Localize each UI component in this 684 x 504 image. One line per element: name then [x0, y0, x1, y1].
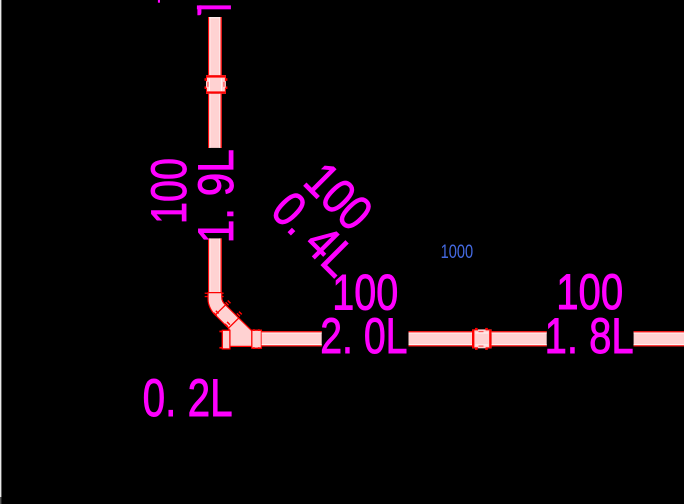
svg-text:2. 0L: 2. 0L: [320, 308, 407, 364]
cut glyph: bottom of rotated '1' of off-screen label (top edge): [197, 5, 231, 15]
wire: vertical pipe segment V3 (below text mask, to elbow): [208, 238, 222, 292]
wire: horizontal pipe segment H2 (text to coupling): [409, 331, 473, 346]
wire: horizontal pipe segment H3 (coupling to 1.8L text): [492, 331, 547, 346]
svg-text:1. 9L: 1. 9L: [188, 149, 244, 243]
wire: vertical pipe segment V1 (top, above coupling): [208, 17, 222, 75]
cap / plug P1 at left end (0.2L stub end): [219, 330, 230, 349]
svg-text:0. 2L: 0. 2L: [143, 369, 233, 428]
socket joint J1 ticks (elbow to diagonal): [214, 301, 231, 316]
coupling C1 on vertical pipe: [205, 75, 228, 94]
wye fitting W1 body: [229, 318, 253, 346]
elbow E1 45deg at bottom of riser: [205, 293, 226, 315]
coupling C2 on horizontal pipe: [472, 328, 492, 350]
cut glyph: tip of rotated '1' of off-screen 100 label (top edge): [158, 0, 160, 3]
svg-text:1000: 1000: [441, 241, 474, 263]
window left edge line: [0, 0, 1, 497]
wye right hub socket: [252, 329, 262, 349]
wire: vertical pipe segment V2 (between coupling and text mask): [208, 94, 222, 148]
wire: diagonal pipe segment D1: [215, 305, 239, 328]
socket joint J2 ticks (diagonal to wye branch): [225, 312, 242, 327]
wire: horizontal pipe segment H4 (1.8L text to right edge): [634, 331, 684, 346]
wire: horizontal pipe segment H1 (wye to 2.0L text): [262, 331, 322, 346]
svg-text:1. 8L: 1. 8L: [545, 308, 634, 364]
